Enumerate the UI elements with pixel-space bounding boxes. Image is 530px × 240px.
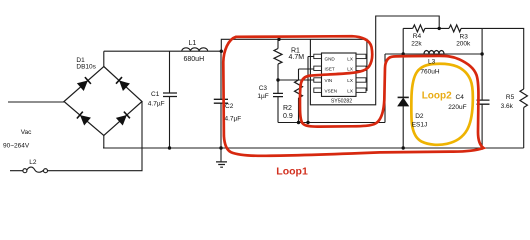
- svg-text:C1: C1: [151, 91, 160, 98]
- svg-text:Loop1: Loop1: [276, 166, 308, 178]
- svg-text:C4: C4: [456, 94, 465, 101]
- svg-text:VIN: VIN: [325, 78, 333, 83]
- svg-text:GND: GND: [325, 57, 336, 62]
- svg-text:220uF: 220uF: [448, 104, 466, 111]
- svg-text:90~264V: 90~264V: [3, 142, 30, 149]
- svg-text:VSEN: VSEN: [325, 89, 338, 94]
- svg-text:4.7µF: 4.7µF: [225, 116, 242, 123]
- svg-text:3.6k: 3.6k: [501, 103, 514, 110]
- svg-text:R4: R4: [413, 33, 422, 40]
- svg-text:L3: L3: [428, 59, 436, 66]
- svg-text:LX: LX: [347, 57, 353, 62]
- svg-text:ES1J: ES1J: [412, 121, 428, 128]
- svg-text:D2: D2: [415, 113, 424, 120]
- svg-text:R2: R2: [283, 105, 292, 112]
- svg-text:ISET: ISET: [325, 66, 335, 71]
- svg-text:1µF: 1µF: [257, 93, 268, 100]
- svg-text:L1: L1: [189, 40, 197, 47]
- svg-text:680uH: 680uH: [184, 56, 205, 63]
- svg-text:4.7µF: 4.7µF: [148, 101, 165, 108]
- svg-text:Vac: Vac: [21, 129, 32, 136]
- svg-text:C2: C2: [225, 103, 234, 110]
- svg-text:L2: L2: [29, 159, 37, 166]
- svg-text:C3: C3: [259, 85, 268, 92]
- svg-text:22k: 22k: [411, 40, 422, 47]
- svg-text:760uH: 760uH: [420, 68, 439, 75]
- svg-text:SY50282: SY50282: [331, 99, 352, 105]
- svg-text:LX: LX: [347, 66, 353, 71]
- svg-text:4.7M: 4.7M: [289, 54, 305, 61]
- svg-text:200k: 200k: [456, 41, 471, 48]
- svg-text:R3: R3: [460, 34, 469, 41]
- svg-text:Loop2: Loop2: [422, 91, 452, 102]
- svg-text:R5: R5: [506, 94, 515, 101]
- svg-text:LX: LX: [347, 89, 353, 94]
- svg-text:LX: LX: [347, 78, 353, 83]
- svg-text:0.9: 0.9: [283, 113, 293, 120]
- svg-text:DB10s: DB10s: [76, 63, 96, 70]
